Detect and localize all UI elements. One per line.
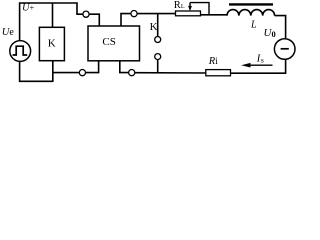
terminal circle bottom-middle <box>129 70 135 76</box>
terminal circle bottom-left <box>79 70 85 76</box>
svg-text:K: K <box>48 37 56 49</box>
minus sign inside U0 <box>281 48 289 50</box>
wire: inductor to U0 source <box>275 16 286 39</box>
resistor Ri <box>206 70 231 76</box>
wire: K box top stub <box>52 3 54 27</box>
wire: switch upper stub <box>157 14 159 37</box>
wire: terminal to RL box, with switch junction <box>137 13 175 15</box>
current arrow Is <box>247 64 273 66</box>
box K <box>39 27 64 60</box>
source U0 circle <box>274 39 295 60</box>
wire: terminal left to K box junction <box>53 72 80 74</box>
source Ue circle <box>10 41 31 62</box>
switch K lower terminal <box>155 54 161 60</box>
terminal circle top-middle <box>131 11 137 17</box>
pulse symbol inside Ue <box>13 46 28 55</box>
potentiometer RL body <box>176 11 201 16</box>
switch K upper terminal <box>155 37 161 43</box>
wire: bottom from Ri left to switch junction and CS terminal <box>135 72 206 74</box>
svg-text:U+: U+ <box>22 2 35 13</box>
wire: top-left horizontal from Ue up-corner to step-down <box>20 3 83 41</box>
wire: from terminal to CS top-left stub <box>89 14 99 26</box>
wiper return wire <box>190 3 209 15</box>
potentiometer wiper arrow <box>189 3 191 8</box>
wire: CS bottom-left stub down and left to terminal <box>86 61 99 73</box>
terminal circle top-left <box>83 11 89 17</box>
wire: bottom rail left to Ue <box>20 61 53 81</box>
wire: RL right to inductor <box>201 14 228 16</box>
svg-text:RL: RL <box>174 0 185 11</box>
wire: K box bottom stub down to bottom rail <box>52 61 54 82</box>
wire: switch lower stub to bottom wire <box>157 60 159 73</box>
wire: terminal to CS bottom-right stub <box>120 61 129 73</box>
svg-text:i: i <box>215 57 218 67</box>
svg-text:U0: U0 <box>264 27 276 39</box>
inductor L coil <box>227 10 275 16</box>
box CS <box>88 26 140 61</box>
svg-text:CS: CS <box>102 36 115 48</box>
svg-text:L: L <box>250 19 257 30</box>
wire: U0 bottom to bottom wire <box>231 59 286 73</box>
inductor core bar <box>229 3 273 5</box>
svg-text:K: K <box>150 21 158 33</box>
wire: CS top-right stub up and right to terminal <box>121 14 131 26</box>
svg-text:Is: Is <box>256 53 264 64</box>
svg-text:Ue: Ue <box>2 27 15 38</box>
